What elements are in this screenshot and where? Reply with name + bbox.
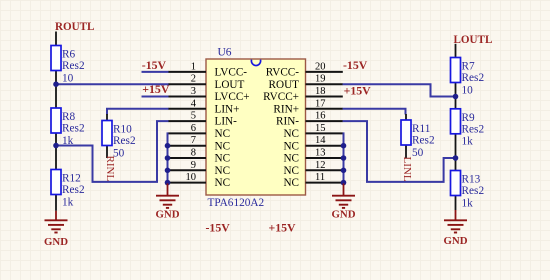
pin 13 NC (283, 148, 342, 165)
resistor R11 (401, 114, 435, 159)
svg-text:1: 1 (191, 61, 196, 72)
ground left NC bus (156, 183, 180, 220)
svg-text:17: 17 (315, 98, 326, 109)
junction R6/R8 node (LOUT) (53, 81, 59, 87)
svg-text:GND: GND (44, 236, 68, 248)
svg-text:1k: 1k (62, 196, 74, 208)
svg-text:R12: R12 (62, 173, 81, 185)
pin 4 LIN+ (168, 98, 239, 115)
pin 6 NC (168, 123, 230, 140)
svg-text:9: 9 (191, 160, 196, 171)
pin 7 NC (168, 135, 230, 152)
svg-text:Res2: Res2 (62, 123, 85, 135)
wire NC bus left: pins 6-10 to ground (168, 133, 169, 183)
svg-text:Res2: Res2 (62, 60, 85, 72)
svg-text:-15V: -15V (343, 58, 368, 72)
svg-text:1k: 1k (62, 135, 74, 147)
resistor R6 (51, 32, 85, 85)
svg-text:10: 10 (62, 72, 74, 84)
junction right NC pin 14 (341, 143, 347, 149)
svg-text:R13: R13 (462, 174, 481, 186)
pin 17 RIN+ (273, 98, 342, 115)
svg-text:10: 10 (462, 84, 474, 96)
svg-text:R7: R7 (462, 61, 476, 73)
svg-text:Res2: Res2 (462, 185, 485, 197)
wire R10 to pin 4 (LIN+) (107, 109, 169, 115)
pin 8 NC (168, 148, 230, 165)
pin 10 NC (168, 172, 230, 189)
svg-text:1k: 1k (462, 197, 474, 209)
resistor R7 (451, 44, 485, 97)
svg-text:NC: NC (283, 165, 299, 177)
svg-text:LIN-: LIN- (215, 116, 238, 128)
svg-text:ROUT: ROUT (269, 79, 300, 91)
wire net ROUT: junction to pin 2 (LOUT) (56, 83, 169, 85)
svg-text:+15V: +15V (269, 221, 297, 235)
svg-text:RINL: RINL (104, 156, 116, 182)
wire feedback: R8/R12 node to pin 5 (LIN-) (56, 121, 169, 182)
svg-text:RIN-: RIN- (276, 116, 299, 128)
svg-text:R11: R11 (412, 123, 430, 135)
pin 14 NC (283, 135, 342, 152)
resistor R13 (451, 158, 485, 210)
svg-text:GND: GND (156, 209, 180, 221)
svg-text:8: 8 (191, 148, 196, 159)
svg-text:18: 18 (315, 86, 326, 97)
net label LOUTL (454, 34, 493, 46)
junction left NC pin 7 (165, 143, 171, 149)
svg-text:4: 4 (191, 98, 197, 109)
svg-text:TPA6120A2: TPA6120A2 (208, 197, 265, 209)
svg-text:11: 11 (315, 172, 325, 183)
svg-text:Res2: Res2 (462, 124, 485, 136)
svg-text:15: 15 (315, 123, 326, 134)
junction R9/R13 node (453, 155, 459, 161)
svg-text:2: 2 (191, 74, 196, 85)
svg-text:5: 5 (191, 111, 196, 122)
svg-text:NC: NC (283, 153, 299, 165)
svg-text:U6: U6 (218, 47, 232, 59)
svg-text:LOUTL: LOUTL (454, 34, 493, 46)
svg-text:GND: GND (444, 235, 468, 247)
wire -15V stub to pin 1 (142, 71, 169, 73)
wire NC bus right: pins 15-11 to ground (342, 133, 345, 183)
junction right NC pin 12 (341, 168, 347, 174)
junction R8/R12 node (53, 143, 59, 149)
svg-text:13: 13 (315, 148, 326, 159)
pin 1 LVCC- (168, 61, 247, 78)
svg-text:20: 20 (315, 61, 326, 72)
wire pin 17 (RIN+) to R11 (343, 109, 406, 115)
pin 5 LIN- (168, 111, 237, 128)
svg-text:-15V: -15V (206, 221, 231, 235)
power label -15V bottom (206, 221, 231, 235)
svg-text:Res2: Res2 (412, 135, 435, 147)
svg-text:R6: R6 (62, 49, 76, 61)
pin 20 RVCC- (266, 61, 343, 78)
junction right NC pin 11 (341, 180, 347, 186)
power label +15V bottom (269, 221, 297, 235)
svg-text:NC: NC (283, 128, 299, 140)
svg-text:1k: 1k (462, 136, 474, 148)
junction R7/R9 node (ROUT) (453, 94, 459, 100)
junction right NC pin 13 (341, 155, 347, 161)
svg-text:-15V: -15V (142, 58, 167, 72)
resistor R9 (451, 97, 485, 158)
pin 18 RVCC+ (263, 86, 343, 103)
net label LINL (vertical) (401, 157, 413, 182)
pin 9 NC (168, 160, 230, 177)
svg-text:16: 16 (315, 111, 326, 122)
svg-text:12: 12 (315, 160, 326, 171)
svg-text:RIN+: RIN+ (273, 103, 299, 115)
ground below R12 (44, 211, 68, 248)
svg-text:NC: NC (283, 177, 299, 189)
svg-text:NC: NC (215, 128, 231, 140)
pin 19 ROUT (269, 74, 343, 91)
svg-text:LINL: LINL (401, 157, 413, 182)
svg-text:R9: R9 (462, 112, 476, 124)
net label RINL (vertical) (104, 156, 116, 182)
resistor R8 (51, 85, 85, 147)
pin 3 LVCC+ (168, 86, 249, 103)
IC U6 TPA6120A2 (206, 47, 306, 210)
svg-text:7: 7 (191, 135, 196, 146)
power label -15V at pin 20 (343, 58, 368, 72)
svg-text:LOUT: LOUT (215, 79, 245, 91)
pin 15 NC (283, 123, 342, 140)
svg-text:NC: NC (283, 140, 299, 152)
svg-text:GND: GND (332, 209, 356, 221)
junction left NC pin 10 (165, 180, 171, 186)
net label ROUTL (55, 21, 94, 33)
svg-text:RVCC+: RVCC+ (263, 91, 299, 103)
svg-text:+15V: +15V (142, 82, 170, 96)
power label +15V at pin 3 (142, 82, 170, 96)
pin 16 RIN- (276, 111, 343, 128)
wire pin 16 (RIN-) to R9/R13 node (343, 121, 456, 182)
junction left NC pin 8 (165, 155, 171, 161)
svg-text:Res2: Res2 (462, 72, 485, 84)
wire +15V stub to pin 3 (142, 96, 169, 98)
svg-text:NC: NC (215, 177, 231, 189)
pin 11 NC (283, 172, 342, 189)
power label +15V at pin 18 (344, 84, 372, 98)
pin 2 LOUT (168, 74, 244, 91)
pin 12 NC (283, 160, 342, 177)
svg-text:Res2: Res2 (113, 135, 136, 147)
ground right NC bus (332, 183, 356, 220)
svg-text:ROUTL: ROUTL (55, 21, 94, 33)
svg-text:RVCC-: RVCC- (266, 67, 300, 79)
svg-text:NC: NC (215, 140, 231, 152)
svg-text:R10: R10 (113, 124, 132, 136)
svg-text:R8: R8 (62, 111, 76, 123)
svg-text:14: 14 (315, 135, 326, 146)
svg-text:LIN+: LIN+ (215, 103, 240, 115)
svg-text:NC: NC (215, 165, 231, 177)
svg-text:3: 3 (191, 86, 196, 97)
junction left NC pin 9 (165, 168, 171, 174)
svg-text:LVCC-: LVCC- (215, 67, 248, 79)
svg-text:19: 19 (315, 74, 326, 85)
resistor R10 (102, 114, 136, 159)
ground below R13 (444, 210, 468, 247)
power label -15V at pin 1 (142, 58, 167, 72)
svg-text:10: 10 (186, 172, 197, 183)
svg-text:LVCC+: LVCC+ (215, 91, 250, 103)
wire pin 19 (ROUT) to R7/R9 node (343, 84, 456, 96)
svg-text:NC: NC (215, 153, 231, 165)
svg-text:Res2: Res2 (62, 184, 85, 196)
svg-text:6: 6 (191, 123, 196, 134)
resistor R12 (51, 146, 85, 211)
svg-text:+15V: +15V (344, 84, 372, 98)
